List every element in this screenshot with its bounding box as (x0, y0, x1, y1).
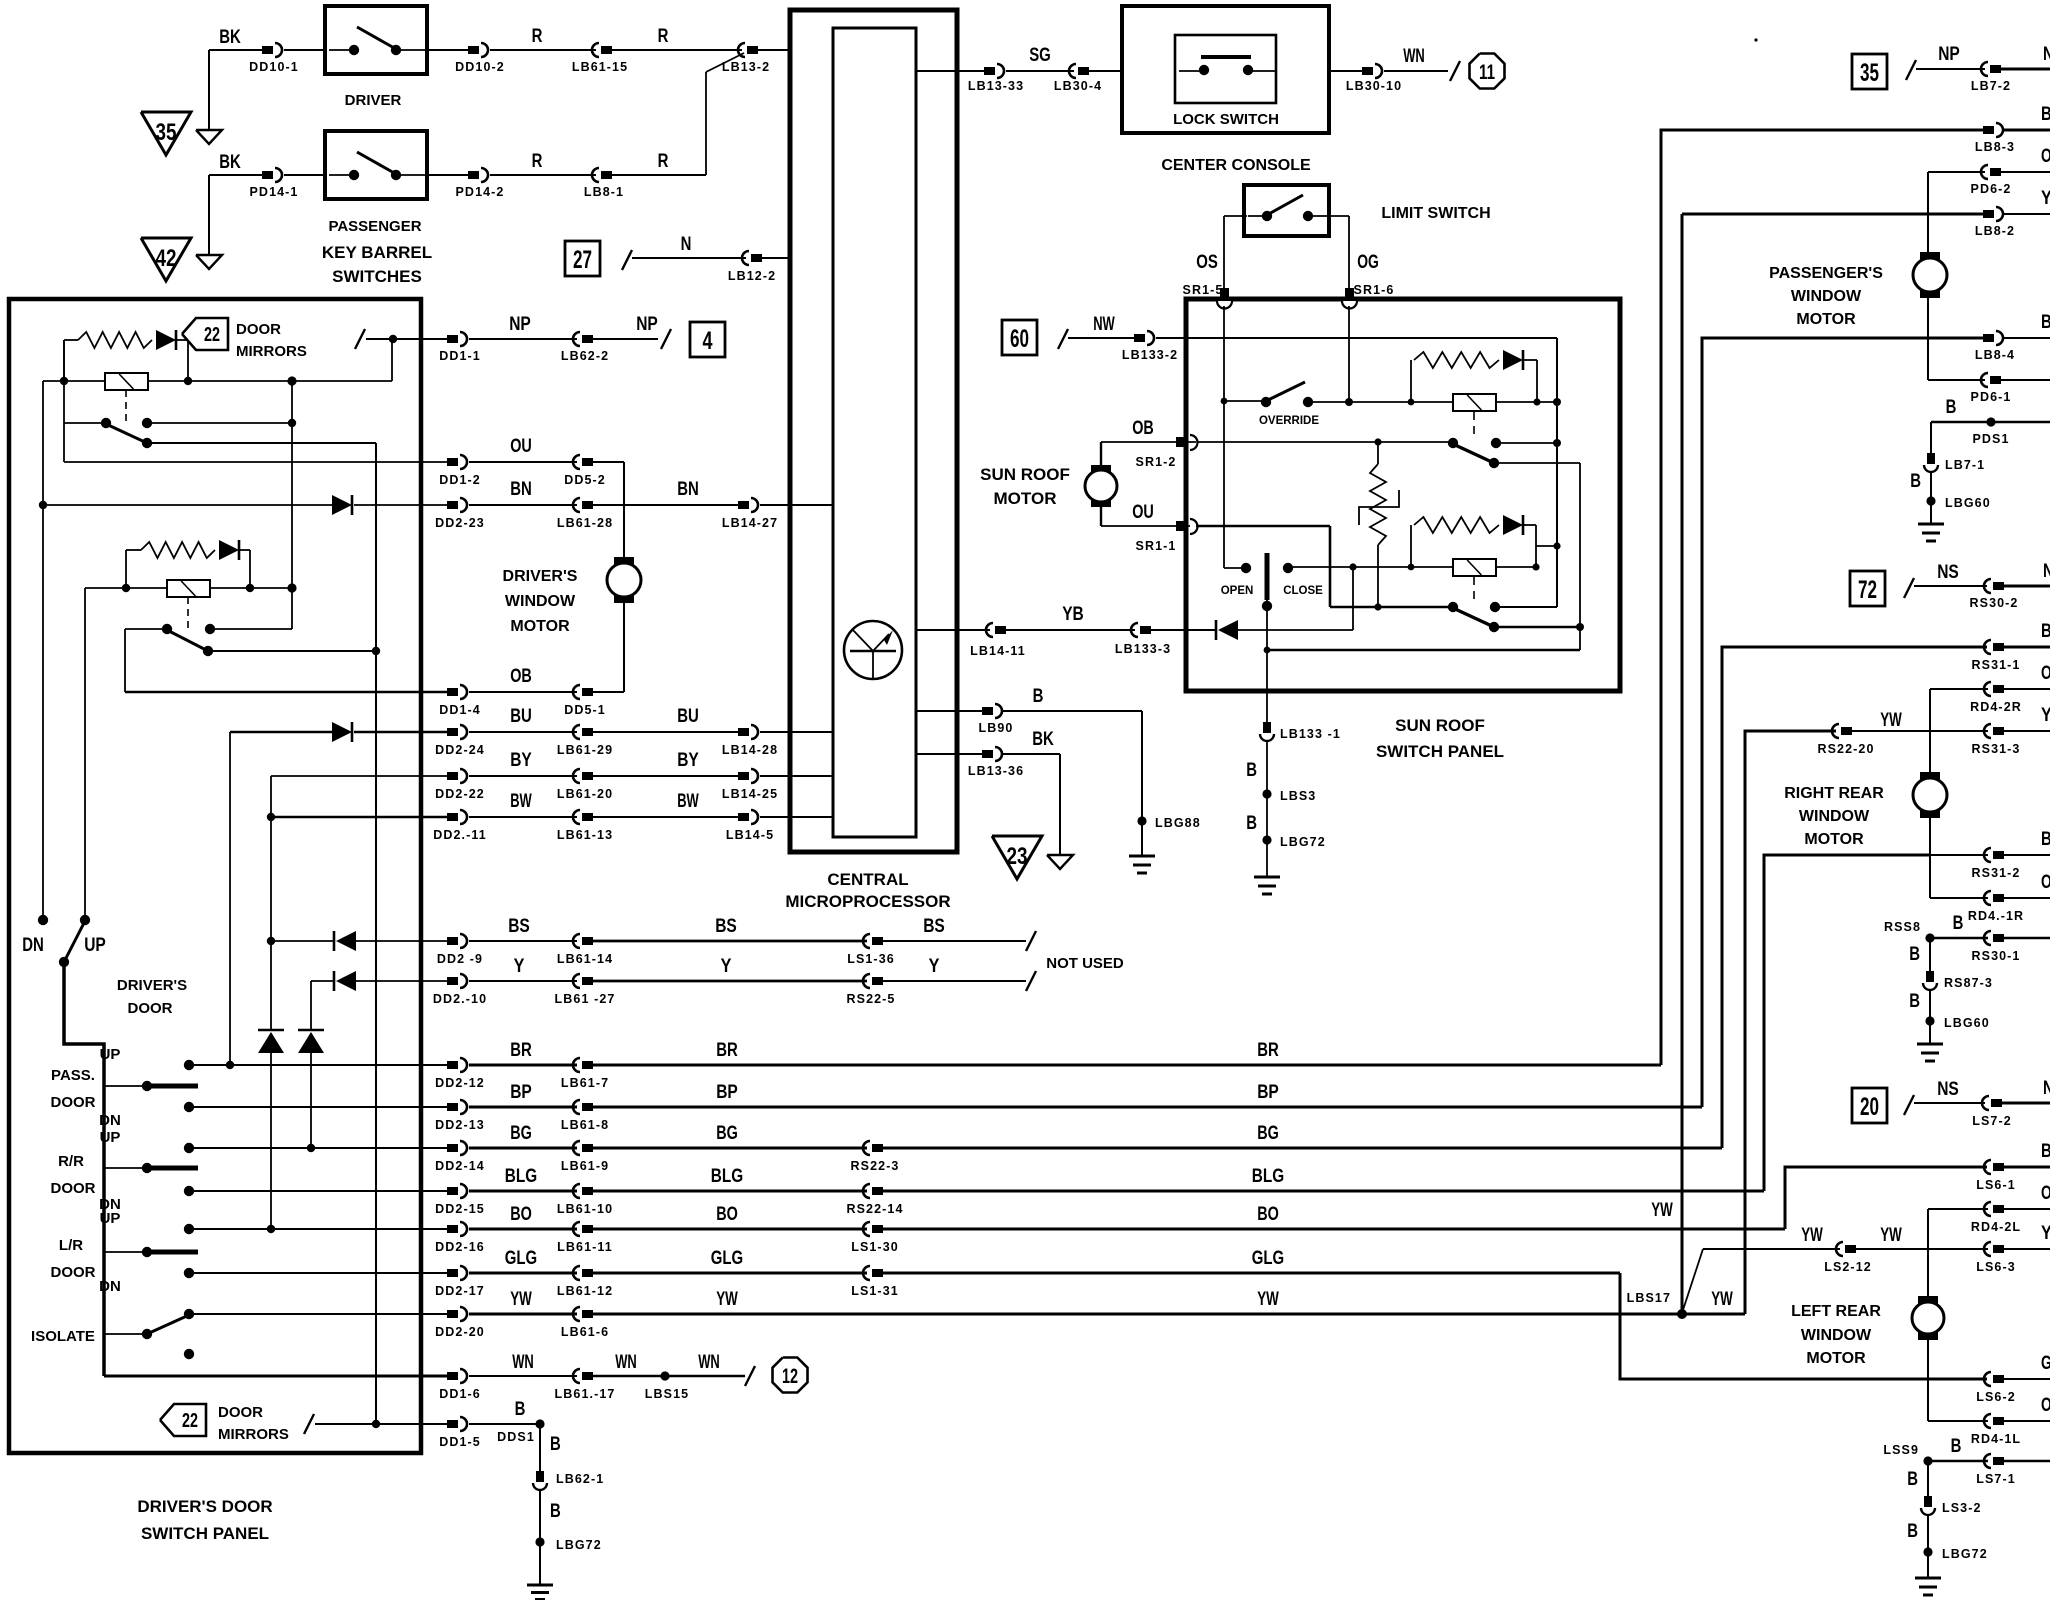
wire BR long (593, 1064, 1661, 1067)
wire BK from microprocessor LB13-36 (916, 753, 982, 755)
svg-text:B: B (1946, 397, 1957, 418)
mirror relay 2 resistor (141, 542, 215, 558)
svg-text:L/R: L/R (59, 1237, 83, 1254)
svg-text:BP: BP (716, 1082, 738, 1103)
riser GLG down to LS6-2 (1620, 1273, 1987, 1379)
diode on BS row pointing left (333, 931, 336, 951)
connector DD2-23 (447, 501, 458, 509)
slash at 72 (1904, 578, 1914, 598)
ground at LBG88 (1129, 855, 1155, 858)
mirror switch 2 output (208, 650, 376, 652)
svg-text:Y: Y (2041, 188, 2050, 209)
wire Y to LB61-27 (469, 980, 577, 982)
connector LB133-1 (1263, 722, 1271, 733)
splice LBS15 (660, 1371, 669, 1380)
svg-text:B: B (1951, 1436, 1962, 1457)
connector LS6-1 (1993, 1163, 2004, 1171)
svg-text:35: 35 (156, 119, 177, 146)
driver's window motor M (614, 557, 634, 566)
svg-text:BW: BW (677, 791, 699, 812)
svg-text:BG: BG (510, 1123, 532, 1144)
svg-text:DD2-16: DD2-16 (435, 1240, 485, 1254)
relay 2 changeover contacts (1448, 602, 1458, 612)
svg-text:BK: BK (219, 152, 241, 173)
svg-text:LSS9: LSS9 (1883, 1443, 1919, 1457)
connector DD5-2 (582, 458, 593, 466)
svg-text:LB13-36: LB13-36 (968, 764, 1024, 778)
svg-text:BK: BK (1032, 729, 1054, 750)
svg-text:R: R (532, 26, 543, 47)
wire from mirror relay 1 to left bus (43, 380, 64, 382)
lock switch outer box (1122, 6, 1329, 133)
svg-text:OU: OU (1132, 502, 1154, 523)
driver door DN UP contacts (38, 915, 48, 925)
svg-text:PASS.: PASS. (51, 1067, 95, 1084)
wire WN to octagon 11 (1384, 70, 1448, 72)
svg-text:BW: BW (510, 791, 532, 812)
slash at 35 right (1906, 60, 1916, 80)
svg-text:DD1-1: DD1-1 (439, 349, 481, 363)
svg-text:OU: OU (510, 436, 532, 457)
svg-text:NP: NP (509, 314, 531, 335)
svg-text:RS87-3: RS87-3 (1944, 976, 1993, 990)
svg-text:O: O (2041, 663, 2050, 684)
svg-text:NS: NS (1937, 562, 1959, 583)
connector DD2-10 (447, 977, 458, 985)
wire NS to LS7-2 (1914, 1102, 1985, 1104)
svg-text:N: N (2043, 44, 2050, 65)
wire YB (1006, 629, 1135, 631)
wire into lock switch (1089, 70, 1175, 72)
row B LB8-3 (1661, 129, 1983, 132)
box ref 27 (565, 241, 600, 276)
svg-text:OB: OB (1132, 418, 1154, 439)
svg-text:R: R (658, 26, 669, 47)
svg-text:BLG: BLG (505, 1166, 537, 1187)
wire BY to LB14-25 (593, 775, 738, 777)
wire BU to LB14-28 (593, 731, 738, 733)
row B PDS1 (1931, 421, 2050, 424)
svg-text:N: N (2043, 561, 2050, 582)
resistor R2 of relay 2 snubber (1410, 525, 1412, 567)
splice LBG72 bottom left (535, 1537, 544, 1546)
svg-text:GLG: GLG (711, 1248, 743, 1269)
svg-text:LB8-3: LB8-3 (1975, 140, 2015, 154)
svg-text:DRIVER'S: DRIVER'S (117, 977, 187, 994)
svg-text:UP: UP (100, 1210, 121, 1227)
riser BP to LB8-4 (1702, 338, 1983, 1107)
wire BP long (593, 1106, 1702, 1109)
svg-text:22: 22 (204, 324, 220, 346)
svg-text:Y: Y (721, 956, 732, 977)
wire NP off edge (2001, 68, 2050, 71)
svg-text:LB7-2: LB7-2 (1971, 79, 2011, 93)
passenger's window motor M (1920, 252, 1940, 261)
slash at 60 (1058, 329, 1068, 349)
svg-text:B: B (2041, 104, 2050, 125)
svg-text:LOCK SWITCH: LOCK SWITCH (1173, 111, 1279, 128)
svg-text:LB13-33: LB13-33 (968, 79, 1024, 93)
svg-text:MOTOR: MOTOR (994, 489, 1057, 508)
svg-text:LB30-10: LB30-10 (1346, 79, 1402, 93)
wire OU to motor top (593, 461, 624, 463)
OVERRIDE switch (1224, 400, 1266, 402)
svg-text:OS: OS (1196, 252, 1218, 273)
wire from mirror relay 2 to UP bus (85, 587, 126, 589)
wire NP to slash (593, 338, 658, 340)
row B RSS8 (1925, 933, 1934, 942)
svg-text:B: B (1909, 991, 1920, 1012)
svg-text:NP: NP (1938, 44, 1960, 65)
row B DD1-5 (447, 1420, 458, 1428)
box ref 4 (690, 322, 725, 357)
svg-text:BO: BO (1257, 1204, 1279, 1225)
svg-text:Y: Y (2041, 705, 2050, 726)
wire B to LBG88 ground (1002, 710, 1142, 712)
svg-text:PD14-1: PD14-1 (250, 185, 299, 199)
svg-text:LBG72: LBG72 (1280, 835, 1326, 849)
svg-text:RD4-2R: RD4-2R (1970, 700, 2022, 714)
svg-text:WN: WN (698, 1352, 720, 1373)
wire BY row (271, 775, 447, 777)
svg-text:LS6-3: LS6-3 (1976, 1260, 2016, 1274)
wire BO to LS1-30 (593, 1228, 867, 1231)
svg-text:DD1-5: DD1-5 (439, 1435, 481, 1449)
wire BLG to LB61-10 (469, 1190, 577, 1193)
wire BO long (883, 1228, 1785, 1231)
vertical from NP row to mirror relay 1 (391, 339, 393, 381)
left rear window motor M (1918, 1296, 1938, 1305)
connector LB61-6 (582, 1310, 593, 1318)
svg-text:B: B (1246, 813, 1257, 834)
svg-text:B: B (2041, 1141, 2050, 1162)
connector LB61-13 (582, 813, 593, 821)
svg-text:LBG60: LBG60 (1945, 496, 1991, 510)
wire BN to LB61-28 (469, 504, 577, 506)
wire GLG to LB61-12 (469, 1272, 577, 1275)
svg-text:DN: DN (22, 935, 44, 956)
connector LB61-11 (582, 1225, 593, 1233)
riser BLG to RS31-2 (1764, 855, 1930, 1191)
svg-text:SWITCH PANEL: SWITCH PANEL (141, 1524, 269, 1543)
svg-text:BLG: BLG (1252, 1166, 1284, 1187)
connector RS31-1 (1993, 643, 2004, 651)
switch contacts passenger (329, 174, 354, 176)
wire BG to LB61-9 (469, 1147, 577, 1150)
svg-text:NW: NW (1093, 314, 1115, 335)
svg-text:DD2-17: DD2-17 (435, 1284, 485, 1298)
wire BK to driver key switch (209, 49, 262, 51)
svg-text:LB61.-17: LB61.-17 (555, 1387, 616, 1401)
splice LBG60 passenger (1926, 496, 1935, 505)
svg-text:DD1-6: DD1-6 (439, 1387, 481, 1401)
svg-text:R: R (658, 151, 669, 172)
diode on BN row (332, 495, 352, 515)
connector LB61-15 (601, 46, 612, 54)
ground left rear window motor (1915, 1577, 1941, 1580)
svg-text:YW: YW (1880, 710, 1902, 731)
svg-text:GLG: GLG (1252, 1248, 1284, 1269)
connector LS1-31 (872, 1269, 883, 1277)
svg-text:LB61-29: LB61-29 (557, 743, 613, 757)
row WN (447, 1372, 458, 1380)
wire BP to LB61-8 (469, 1106, 577, 1109)
svg-text:CLOSE: CLOSE (1283, 585, 1323, 597)
connector LB61-12 (582, 1269, 593, 1277)
svg-text:Y: Y (514, 956, 525, 977)
connector RS22-3 (872, 1144, 883, 1152)
svg-text:UP: UP (84, 935, 106, 956)
connector LB14-25 (738, 772, 749, 780)
connector LS7-2 (1991, 1099, 2002, 1107)
svg-text:DD2-23: DD2-23 (435, 516, 485, 530)
wire R from LB8-1 to diagonal (612, 174, 706, 176)
svg-text:B: B (2041, 621, 2050, 642)
svg-text:PASSENGER'S: PASSENGER'S (1769, 265, 1883, 282)
connector LB61-10 (582, 1187, 593, 1195)
diagonal from LBS17 to LS2-12 row (1682, 1249, 1703, 1313)
svg-text:DD5-2: DD5-2 (564, 473, 606, 487)
svg-text:LB90: LB90 (979, 721, 1014, 735)
connector RS31-3 (1993, 727, 2004, 735)
svg-text:DRIVER'S DOOR: DRIVER'S DOOR (137, 1497, 272, 1516)
riser BR to LB8-3 (1661, 130, 1983, 1065)
pentagon ref 22 top (182, 318, 228, 350)
connector LB61-9 (582, 1144, 593, 1152)
svg-text:NS: NS (1937, 1079, 1959, 1100)
sun roof motor M (1100, 442, 1102, 466)
svg-text:YW: YW (716, 1289, 738, 1310)
ground below sun roof switch panel (1254, 876, 1280, 879)
svg-text:O: O (2041, 146, 2050, 167)
diode D2 of relay 2 snubber (1503, 515, 1523, 535)
sun roof switch panel box (1186, 299, 1620, 691)
transistor symbol inside microprocessor (844, 621, 902, 679)
svg-text:BR: BR (716, 1040, 738, 1061)
driver's door switch panel box (9, 299, 421, 1453)
connector DD2-13 (447, 1103, 458, 1111)
svg-text:WINDOW: WINDOW (1801, 1327, 1872, 1344)
svg-text:LBG72: LBG72 (1942, 1547, 1988, 1561)
mirror relay 2 coil (167, 580, 210, 597)
svg-text:BG: BG (716, 1123, 738, 1144)
svg-text:SR1-6: SR1-6 (1354, 283, 1395, 297)
splice LBG60 right rear (1925, 1016, 1934, 1025)
wire R to LB61-15 (490, 49, 596, 51)
wire BK to passenger key switch (209, 174, 262, 176)
svg-text:B: B (1033, 686, 1044, 707)
lock switch inner box (1175, 35, 1276, 103)
svg-text:B: B (1910, 471, 1921, 492)
svg-text:35: 35 (1860, 59, 1879, 87)
svg-text:LB14-28: LB14-28 (722, 743, 778, 757)
svg-text:LB8-2: LB8-2 (1975, 224, 2015, 238)
svg-text:RS22-20: RS22-20 (1817, 742, 1874, 756)
svg-text:DD1-4: DD1-4 (439, 703, 481, 717)
connector LS3-2 (1924, 1496, 1932, 1507)
svg-text:LB62-2: LB62-2 (561, 349, 609, 363)
svg-text:LS7-1: LS7-1 (1976, 1472, 2016, 1486)
diagonal branch from LB13-2 down to passenger R wire (706, 53, 744, 72)
svg-text:MOTOR: MOTOR (1796, 311, 1856, 328)
connector DD2-11 (447, 813, 458, 821)
wire from lock switch to LB30-10 (1329, 70, 1362, 72)
svg-text:YW: YW (1651, 1200, 1673, 1221)
svg-text:LB14-11: LB14-11 (970, 644, 1026, 658)
svg-text:LS7-2: LS7-2 (1972, 1114, 2012, 1128)
svg-text:LB7-1: LB7-1 (1945, 458, 1985, 472)
svg-text:B: B (2041, 312, 2050, 333)
wire BLG long (883, 1190, 1764, 1193)
svg-text:LS6-2: LS6-2 (1976, 1390, 2016, 1404)
splice PDS1 (1986, 417, 1995, 426)
connector LS2-12 (1845, 1245, 1856, 1253)
svg-text:BU: BU (677, 706, 699, 727)
vertical OS inside panel to OPEN contact (1223, 401, 1225, 568)
slash Y not used (1026, 971, 1036, 991)
wire NP row inside panel (366, 338, 447, 340)
wire OG from limit switch to SR1-6 (1326, 215, 1349, 217)
connector PD14-2 (427, 174, 468, 176)
svg-text:BU: BU (510, 706, 532, 727)
wire NS to RS30-2 (1914, 585, 1987, 587)
svg-text:BO: BO (510, 1204, 532, 1225)
svg-text:RS22-3: RS22-3 (851, 1159, 900, 1173)
YW contact row (184, 1309, 194, 1319)
wire B from microprocessor LB90 (916, 710, 982, 712)
svg-text:SR1-1: SR1-1 (1136, 539, 1177, 553)
wire OU to DD5-2 (469, 461, 577, 463)
svg-text:DOOR: DOOR (128, 1000, 173, 1017)
svg-text:LB14-27: LB14-27 (722, 516, 778, 530)
svg-text:Y: Y (2041, 1223, 2050, 1244)
vertical bus from BY row (270, 776, 272, 1030)
wire NP to LB7-2 (1916, 68, 1985, 70)
svg-text:B: B (1909, 944, 1920, 965)
svg-text:UP: UP (100, 1129, 121, 1146)
connector LS6-3 (1993, 1245, 2004, 1253)
connector LB12-2 (751, 254, 762, 262)
svg-text:LBS17: LBS17 (1627, 1291, 1671, 1305)
ground bottom left (527, 1584, 553, 1587)
svg-text:LB61-7: LB61-7 (561, 1076, 609, 1090)
wire B down to LB7-1 (1930, 422, 1932, 453)
wire Y not used (883, 980, 1026, 982)
svg-text:DD2-13: DD2-13 (435, 1118, 485, 1132)
NW rail vertical right side of panel (1556, 338, 1558, 607)
svg-text:23: 23 (1007, 843, 1028, 870)
svg-text:DD2-24: DD2-24 (435, 743, 485, 757)
svg-text:RS30-1: RS30-1 (1972, 949, 2021, 963)
svg-text:DD5-1: DD5-1 (564, 703, 606, 717)
connector LB14-11 (995, 626, 1006, 634)
riser BO to LS6-1 (1785, 1167, 1987, 1229)
UP contact row BO (184, 1224, 194, 1234)
mechanical link bracket by resistor (1359, 490, 1399, 525)
svg-text:DDS1: DDS1 (497, 1430, 535, 1444)
isolate lower contact (184, 1349, 194, 1359)
connector SR1-1 on panel left edge (1176, 521, 1186, 531)
svg-text:LB14-25: LB14-25 (722, 787, 778, 801)
connector LB62-2 (582, 335, 593, 343)
svg-text:DD2.-10: DD2.-10 (433, 992, 487, 1006)
svg-text:LBS3: LBS3 (1280, 789, 1316, 803)
svg-text:DRIVER'S: DRIVER'S (503, 568, 578, 585)
svg-text:DOOR: DOOR (236, 321, 281, 338)
svg-text:BG: BG (1257, 1123, 1279, 1144)
wire OS from limit switch to SR1-5 (1224, 215, 1247, 217)
svg-text:DRIVER: DRIVER (345, 92, 402, 109)
connector DD5-1 (582, 688, 593, 696)
svg-text:MICROPROCESSOR: MICROPROCESSOR (785, 892, 950, 911)
svg-text:LB61-6: LB61-6 (561, 1325, 609, 1339)
svg-text:LB12-2: LB12-2 (728, 269, 776, 283)
svg-text:LB61-14: LB61-14 (557, 952, 613, 966)
svg-text:LS6-1: LS6-1 (1976, 1178, 2016, 1192)
svg-text:DN: DN (99, 1278, 121, 1295)
wire BG to RS22-3 (593, 1147, 867, 1150)
blocking diode up on bus x271 (258, 1029, 284, 1032)
svg-text:LB61-8: LB61-8 (561, 1118, 609, 1132)
wire YW to LB61-6 (469, 1313, 577, 1316)
svg-text:LB14-5: LB14-5 (726, 828, 774, 842)
svg-text:OPEN: OPEN (1221, 585, 1254, 597)
connector DD2-12 (447, 1061, 458, 1069)
slash before box 4 (661, 329, 671, 349)
svg-text:OVERRIDE: OVERRIDE (1259, 415, 1319, 427)
svg-text:11: 11 (1479, 61, 1495, 84)
connector LB61-8 (582, 1103, 593, 1111)
connector LB61-17 (582, 1372, 593, 1380)
triangle ref 42 (141, 238, 191, 281)
svg-text:DD2.-11: DD2.-11 (433, 828, 487, 842)
svg-text:O: O (2041, 1395, 2050, 1416)
wire BY to LB61-20 (469, 775, 577, 777)
connector PD14-1 (262, 171, 273, 179)
slash at 20 (1904, 1095, 1914, 1115)
connector LB13-33 (984, 67, 995, 75)
connector LB61-7 (582, 1061, 593, 1069)
connector LB14-27 (738, 501, 749, 509)
wire BS to LB61-14 (469, 940, 577, 942)
wire O from RD4-2L to motor (1927, 1209, 1929, 1302)
DN contact row BP (184, 1102, 194, 1112)
connector LB30-4 (1078, 67, 1089, 75)
connector RS87-3 (1926, 971, 1934, 982)
svg-text:B: B (550, 1501, 561, 1522)
svg-text:DD1-2: DD1-2 (439, 473, 481, 487)
wire SG to LB30-4 (1006, 70, 1074, 72)
connector RD4-1L (1993, 1417, 2004, 1425)
mirror relay 1 coil (105, 373, 148, 390)
rocker common return line (1267, 649, 1580, 652)
wire BU to LB61-29 (469, 731, 577, 733)
connector DD2-20 (447, 1310, 458, 1318)
svg-text:RD4-1L: RD4-1L (1971, 1432, 2021, 1446)
vertical resistor inside sun roof panel (1377, 442, 1379, 464)
svg-text:YW: YW (1711, 1289, 1733, 1310)
connector DD2-22 (447, 772, 458, 780)
svg-text:O: O (2041, 1183, 2050, 1204)
connector LB133-2 (1134, 334, 1145, 342)
connector RS22-5 (872, 977, 883, 985)
blocking diode up on bus x311 (298, 1029, 324, 1032)
wire CLOSE row to relay 2 coil (1288, 566, 1453, 568)
svg-text:LS1-31: LS1-31 (851, 1284, 899, 1298)
diode on BU row (332, 722, 352, 742)
svg-text:B: B (1246, 760, 1257, 781)
connector DD2-14 (447, 1144, 458, 1152)
